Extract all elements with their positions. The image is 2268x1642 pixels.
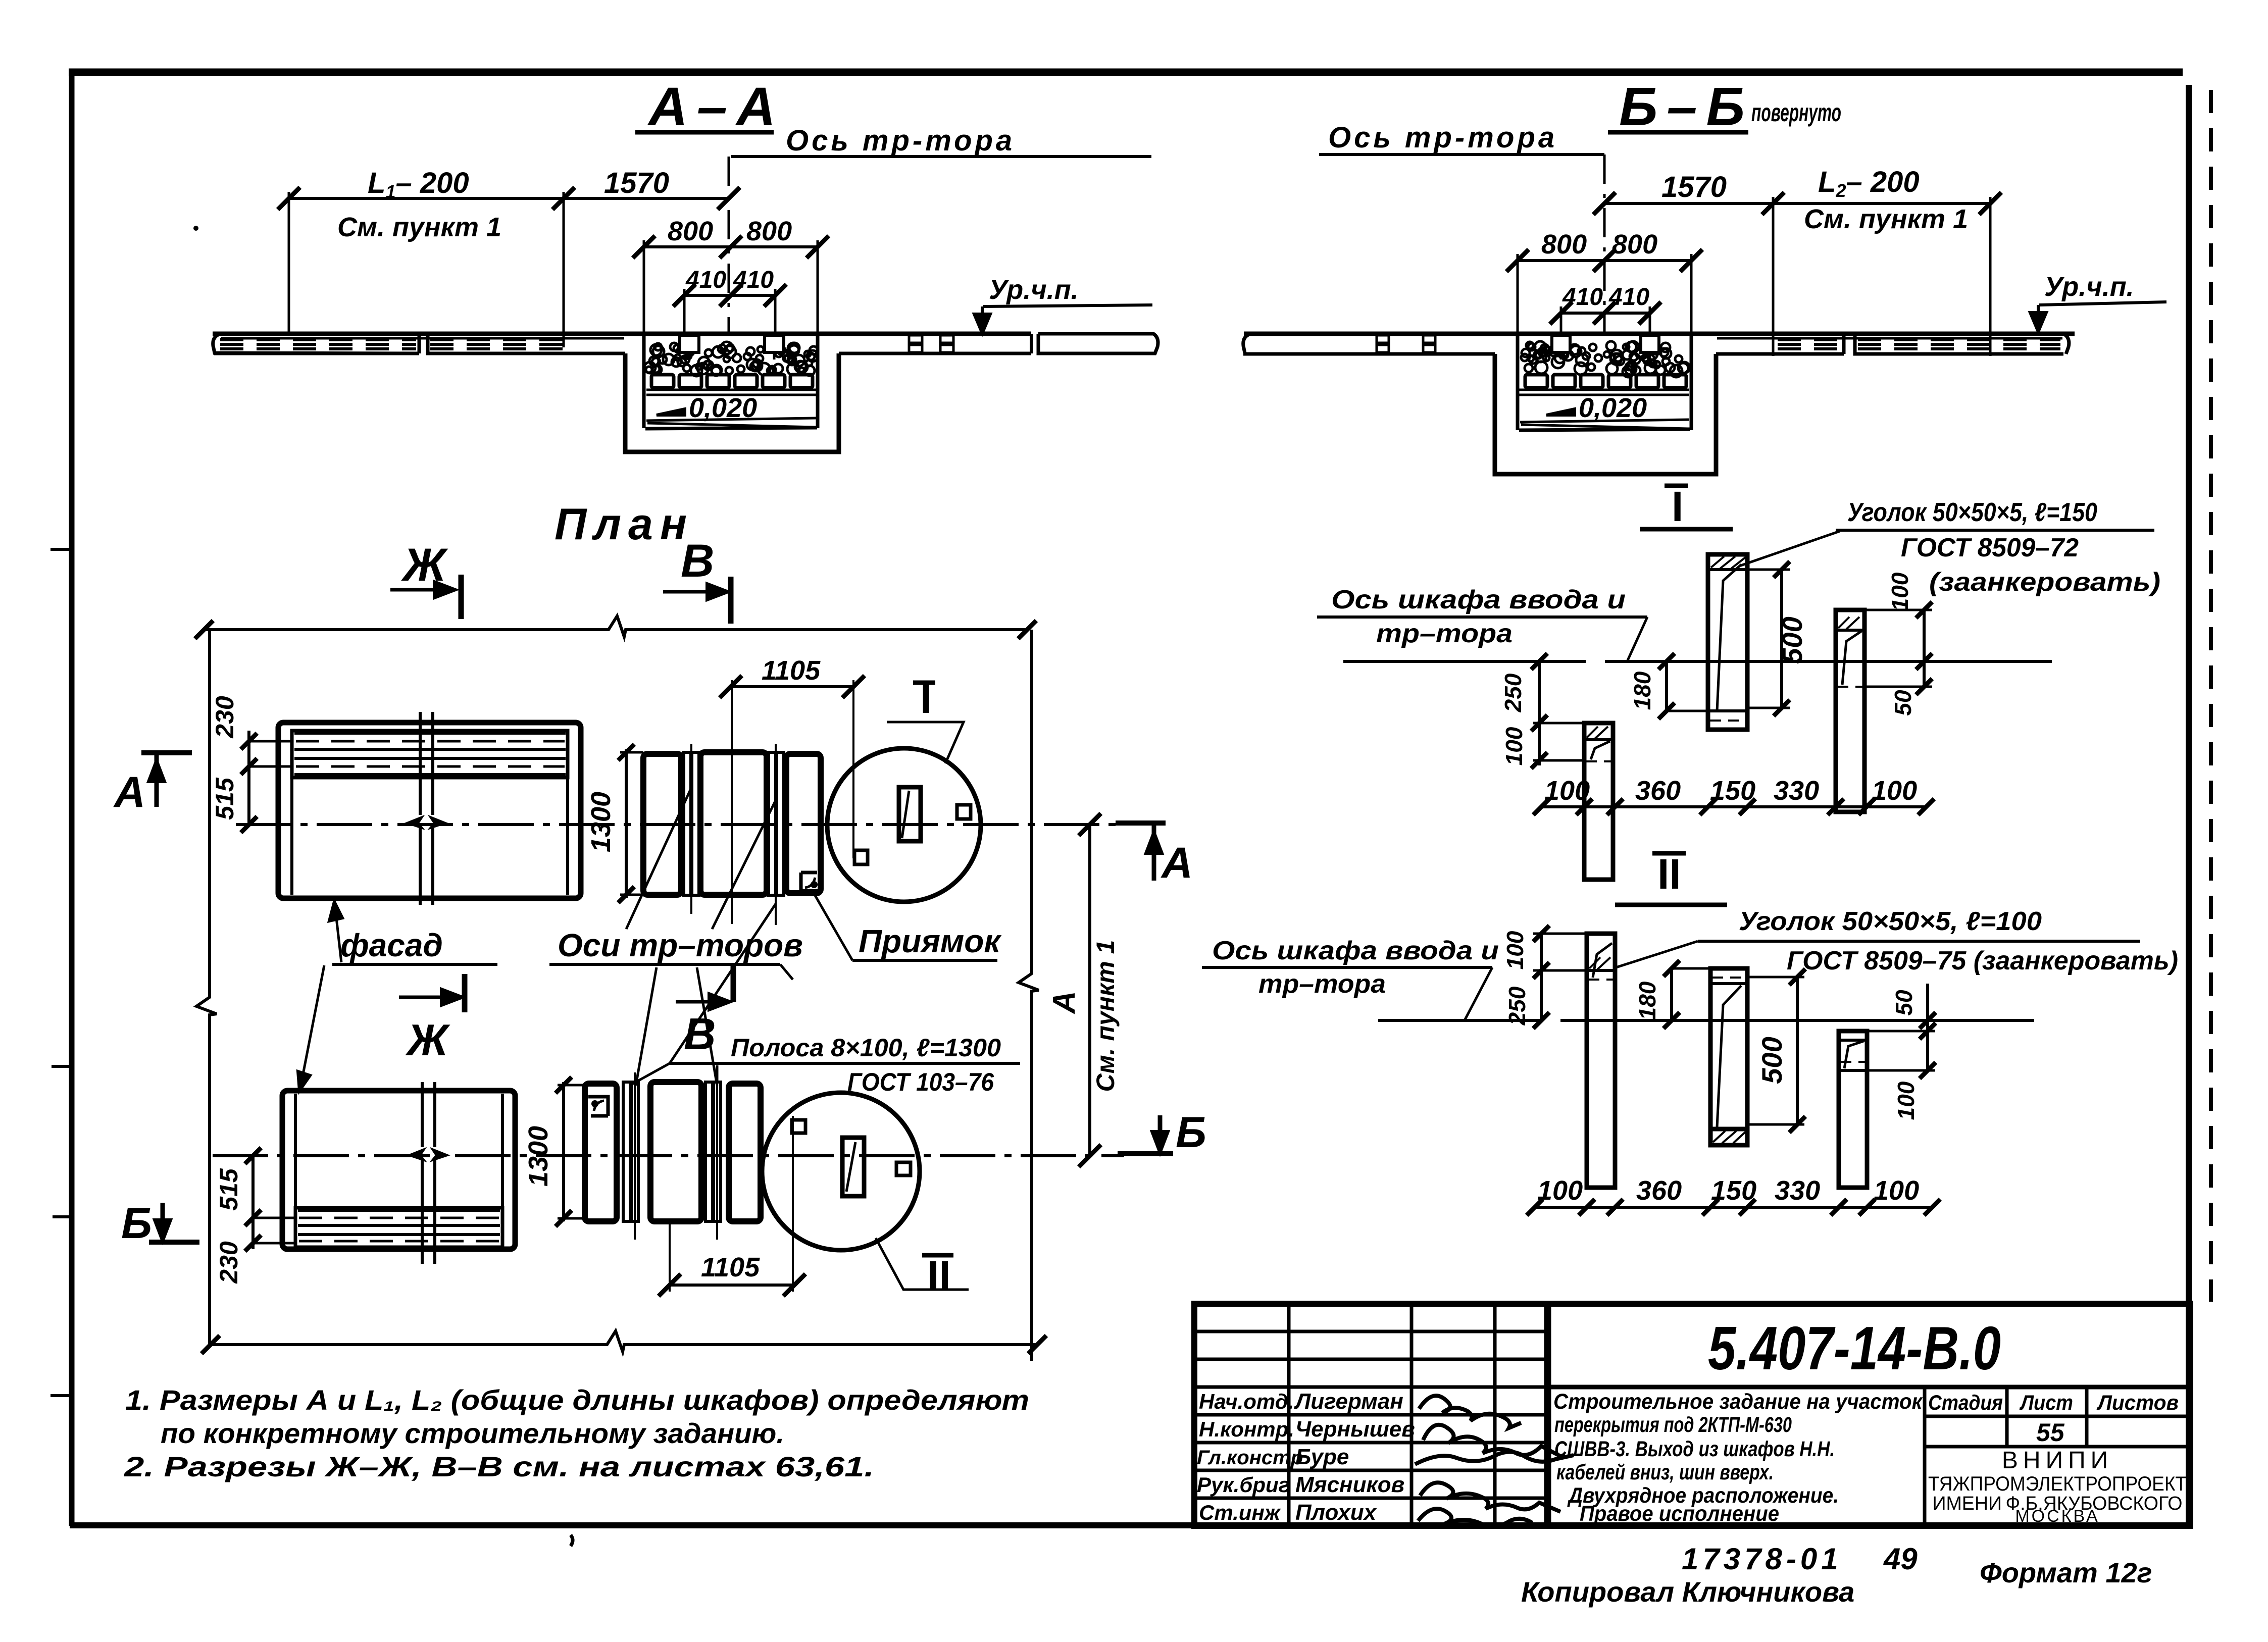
svg-text:100: 100 [1887,572,1913,611]
dimension 180 (detail I) [1665,661,1668,711]
floor surface line (Б-Б) [1244,332,2075,336]
svg-text:1300: 1300 [586,792,616,852]
extension lines 410 (Б-Б) [1560,306,1563,349]
dimension line 1570 / L2-200 (Б-Б) [1604,202,1990,205]
svg-text:1300: 1300 [523,1126,553,1187]
extension ticks 1300 bottom row [558,1084,585,1087]
svg-text:360: 360 [1635,776,1681,806]
Ось шкафа leader slant (detail II) [1465,967,1492,1020]
dimension 500 (detail I) [1780,570,1783,708]
busbar rails bottom row [298,1209,500,1212]
svg-text:Б: Б [121,1199,152,1248]
transformer axis 1 top row [690,744,692,914]
dimension line L1-200 / 1570 (A-A) [289,197,729,200]
dimension 1105 top row [731,685,853,688]
drawing frame right border [2186,85,2192,1526]
angle post right (detail I) [1836,610,1864,812]
drawing frame top border [69,69,2183,76]
right hatched slab 1 (Б-Б) [1776,334,1844,354]
Оси тр-торов leader to top row axis 2 [712,800,776,929]
section mark Ж top: bar [459,575,464,619]
left hatched slab 2 (A-A) [428,334,566,353]
svg-text:перекрытия под 2КТП-М-630: перекрытия под 2КТП-М-630 [1554,1413,1792,1437]
detail II reference leader [876,1238,969,1290]
svg-text:410: 410 [1608,284,1649,311]
extension lines 515/230 bottom row [253,1217,295,1219]
double top edge of hatched slabs (A-A) [221,337,624,340]
right slab (A-A) [839,352,1031,355]
section A-A title underline [635,130,774,135]
slab break (A-A right) [1030,334,1033,353]
extension lines 230/515 top row [249,740,292,743]
svg-text:Мясников: Мясников [1295,1472,1404,1497]
dimension 50 right (detail I) [1923,661,1926,687]
svg-text:100: 100 [1502,931,1528,969]
svg-text:1570: 1570 [1661,171,1727,203]
svg-text:Лист: Лист [2019,1391,2073,1414]
svg-text:250: 250 [1504,986,1530,1025]
pit outer wall (A-A) [625,353,839,452]
extension lines 800 (Б-Б) [1517,254,1519,335]
slab joint marks (A-A) [909,335,922,343]
svg-text:тр–тора: тр–тора [1376,619,1513,648]
anchor post left (A-A) [680,335,699,352]
svg-text:ВНИПИ: ВНИПИ [2002,1447,2113,1474]
Ур.ч.п. leader (Б-Б) [2039,302,2166,305]
flat-bar strips pair 1 top row [684,752,691,895]
Ось шкафа leader slant (detail I) [1627,617,1647,661]
vertical dimension 230/515 top row [247,731,250,825]
dimension line 800+800 (Б-Б) [1518,259,1691,262]
extension lines 410 (A-A) [683,289,686,348]
transformer block 2 top row (plan) [700,752,767,895]
section mark А right: stem with up arrow [1152,825,1156,881]
svg-text:L2– 200: L2– 200 [1818,166,1920,201]
Ур.ч.п. arrow (A-A) [981,306,984,327]
svg-text:Листов: Листов [2096,1391,2179,1414]
svg-text:L1– 200: L1– 200 [368,167,469,202]
perforation dashed line right [2209,90,2213,1302]
svg-text:800: 800 [1612,229,1657,260]
cabinet busbar channel bottom row [295,1208,502,1247]
slab joint marks (Б-Б) [1377,335,1389,343]
title block row lines left part [1194,1330,1549,1333]
dimension 50 right (detail II) [1926,984,1929,1031]
plan boundary top dimension line with break [204,616,1027,637]
vertical dimension 515/230 bottom row [251,1156,255,1249]
svg-text:410: 410 [733,267,774,293]
dimension 1300 bottom row [562,1082,565,1221]
left hatched slab 1 (A-A) [213,334,419,353]
section mark В bottom: arrow line [676,1000,719,1004]
extension lines 1105 bottom row [669,1221,671,1292]
inner edge line right post (detail I) [1842,631,1861,685]
right end slab piece (A-A) [1038,334,1158,353]
svg-text:фасад: фасад [340,927,443,963]
Полоса leader long diagonal [670,904,776,1063]
svg-text:Полоса 8×100, ℓ=1300: Полоса 8×100, ℓ=1300 [731,1034,1001,1062]
title block description box divider [1548,1304,1551,1526]
anchor square right in circle I [957,805,971,819]
Ур.ч.п. arrow (Б-Б) [2037,305,2040,325]
dimension 1105 bottom row [670,1284,794,1287]
section mark В top: arrow line [663,590,716,594]
svg-text:(заанкеровать): (заанкеровать) [1929,568,2160,597]
Ур.ч.п. leader (A-A) [983,305,1152,306]
plan boundary bottom dimension line with break [211,1331,1037,1352]
svg-text:Правое исполнение: Правое исполнение [1580,1502,1779,1526]
Оси тр-торов leader to bottom row axes [636,964,793,1086]
svg-text:См. пункт 1: См. пункт 1 [1091,940,1120,1092]
dimension А (plan right) [1088,825,1091,1156]
inner edge line right post (detail II) [1844,1041,1863,1068]
angle post right (detail II) [1839,1031,1867,1188]
anchor square right in circle II [896,1162,911,1175]
leader Уголок to left post (detail II) [1616,941,1698,967]
svg-text:по конкретному строительному: по конкретному строительному заданию. [161,1417,784,1449]
svg-text:800: 800 [1541,229,1587,260]
svg-text:Строительное задание на участо: Строительное задание на участок [1553,1390,1923,1414]
cabinet split double line bottom row [422,1082,435,1264]
transformer block 1 top row (plan) [643,754,681,895]
svg-text:180: 180 [1629,671,1655,710]
svg-text:515: 515 [215,1168,243,1211]
flat-bar strips pair 1 bottom row [623,1082,630,1221]
title block vertical dividers left part [1287,1304,1291,1526]
svg-text:Уголок 50×50×5, ℓ=150: Уголок 50×50×5, ℓ=150 [1847,498,2097,527]
svg-text:тр–тора: тр–тора [1258,969,1386,999]
svg-text:100: 100 [1872,776,1917,806]
anchor square lower-left in circle I [854,850,868,864]
transformer block 2 bottom row (plan) [650,1082,701,1221]
extension line at 1570 (A-A) [563,192,565,347]
flat-bar strips pair 2 top row [769,752,776,895]
transformer axis 1 bottom row [634,1072,636,1240]
busbar dashed centerlines top row [296,740,565,743]
inner edge line left post (detail II) [1593,943,1612,978]
dimension 250 left (detail II) [1533,1012,1549,1029]
transformer axis centerline (Б-Б) [1603,155,1606,335]
angle post left (detail I) [1584,723,1613,880]
pit inner walls (A-A) [642,334,646,428]
angle post left (detail II) [1587,934,1615,1188]
flat-bar strips pair 2 bottom row [705,1082,713,1221]
svg-text:230: 230 [215,1241,243,1284]
section mark Ж bottom: bar [462,974,468,1012]
cabinet inner end walls top row [290,778,293,895]
transformer axis 2 bottom row [716,1072,718,1240]
svg-text:100: 100 [1537,1175,1583,1206]
cabinet inner end walls bottom row [294,1094,297,1208]
pit corner symbol top row [801,873,821,891]
pit inner walls (Б-Б) [1516,334,1520,430]
svg-text:360: 360 [1636,1175,1682,1206]
svg-text:Ось шкафа ввода и: Ось шкафа ввода и [1212,936,1499,965]
cabinet split break arrows top row [407,817,445,828]
dimension 180 (detail II) [1670,968,1673,1020]
right hatched slab 2 (Б-Б) [1855,334,2069,354]
plan boundary left line with break [196,630,217,1345]
extension ticks 1300 top row [620,751,643,754]
anchor square top-left in circle II [792,1120,805,1133]
svg-text:180: 180 [1634,981,1660,1020]
anchor post right (A-A) [765,335,784,352]
svg-text:ГОСТ 8509–72: ГОСТ 8509–72 [1901,533,2079,562]
svg-text:Рук.бриг: Рук.бриг [1197,1473,1290,1497]
title block stadia columns [1923,1387,1927,1526]
svg-text:50: 50 [1890,690,1916,716]
section mark А left: stem with up arrow [155,753,159,807]
svg-text:800: 800 [746,216,792,246]
dimension 100 right (detail II) [1926,1031,1929,1070]
svg-text:См. пункт 1: См. пункт 1 [1804,204,1968,234]
axis line (detail II) [1378,1019,2034,1022]
anchor post left (Б-Б) [1552,335,1570,352]
svg-text:100: 100 [1893,1081,1919,1120]
detail I reference leader [887,722,964,763]
svg-text:Буре: Буре [1295,1445,1349,1469]
section mark А left: cap line [141,750,192,755]
dimension 1300 top row [625,749,628,898]
svg-text:Чернышев: Чернышев [1295,1417,1415,1442]
cabinet split break arrows bottom row [409,1149,447,1160]
section mark А right: cap line [1116,820,1166,826]
svg-text:СШВВ-3. Выход из шкафов Н.Н.: СШВВ-3. Выход из шкафов Н.Н. [1554,1437,1835,1461]
leader Уголок to middle post (detail I) [1741,531,1840,566]
svg-text:Формат 12г: Формат 12г [1980,1557,2152,1588]
axis line (detail I) [1343,660,2052,663]
double top edge of hatched slabs (Б-Б) [1717,337,2062,340]
dimension 500 (detail II) [1796,977,1799,1124]
Приямок leader to pit corner [814,894,852,960]
svg-text:Уголок 50×50×5, ℓ=100: Уголок 50×50×5, ℓ=100 [1739,907,2042,936]
detail I heading underline [1640,527,1733,532]
svg-text:2. Разрезы Ж–Ж, В–В см. на: 2. Разрезы Ж–Ж, В–В см. на листах 63,61. [124,1451,874,1482]
svg-text:50: 50 [1891,990,1917,1016]
svg-text:100: 100 [1501,727,1527,765]
slope mark 0,020 (Б-Б) [1546,409,1575,415]
svg-text:0,020: 0,020 [1579,393,1647,423]
Полоса leaders to bottom row strips [631,1063,717,1085]
svg-text:500: 500 [1756,1037,1788,1084]
cabinet busbar channel top row [292,731,568,778]
svg-text:ТЯЖПРОМЭЛЕКТРОПРОЕКТ: ТЯЖПРОМЭЛЕКТРОПРОЕКТ [1928,1473,2187,1495]
svg-text:230: 230 [211,696,239,739]
svg-text:Ур.ч.п.: Ур.ч.п. [2044,272,2134,302]
bottom dimension chain (detail I) [1541,805,1926,808]
extension lines 800 (A-A) [643,240,645,334]
svg-text:МОСКВА: МОСКВА [2015,1507,2099,1526]
svg-text:5.407-14-В.0: 5.407-14-В.0 [1708,1314,2001,1382]
svg-text:17378-01: 17378-01 [1682,1542,1842,1576]
dimension 250 left (detail I) [1538,661,1541,765]
svg-text:1105: 1105 [701,1252,760,1282]
extension line at 1570 (Б-Б) [1772,197,1775,356]
extension line left end (A-A) [288,192,290,336]
svg-text:100: 100 [1874,1175,1919,1206]
right slab plain part (Б-Б) [1716,352,1776,356]
svg-text:500: 500 [1776,617,1808,663]
section mark Б right: cap line [1118,1151,1173,1156]
busbar dashed centerlines bottom row [299,1217,499,1219]
extension line right end (Б-Б) [1989,197,1992,356]
section mark В top: bar [728,577,734,624]
svg-text:II: II [1657,850,1681,898]
pit bottom screed lines (A-A) [646,418,816,421]
фасад leader down to bottom cabinet [301,965,324,1085]
transformer block 1 bottom row with pit corner (plan) [585,1084,617,1221]
transformer block 3 bottom row (plan) [729,1084,761,1221]
svg-text:1. Размеры А и L₁, L₂ (общие: 1. Размеры А и L₁, L₂ (общие длины шкафо… [125,1384,1029,1416]
svg-text:150: 150 [1710,776,1755,806]
dimension line 800+800 (A-A) [644,245,818,248]
svg-text:1105: 1105 [762,655,821,686]
svg-text:кабелей вниз, шин вверх.: кабелей вниз, шин вверх. [1556,1460,1774,1484]
section mark Ж bottom: arrow line [399,996,451,999]
drawing frame left border [69,70,75,1526]
svg-text:Ст.инж: Ст.инж [1199,1501,1281,1524]
svg-text:55: 55 [2036,1418,2065,1447]
svg-text:Оси тр–торов: Оси тр–торов [558,927,803,963]
svg-text:Нач.отд.: Нач.отд. [1199,1390,1294,1413]
svg-text:Ж: Ж [405,1015,450,1065]
detail II heading underline [1615,903,1727,907]
svg-text:330: 330 [1774,776,1819,806]
svg-text:Б: Б [1176,1108,1206,1157]
gravel fill in pit (Б-Б) [1521,341,1690,377]
svg-text:1570: 1570 [604,167,669,199]
svg-text:А–А: А–А [647,76,785,137]
svg-text:повернуто: повернуто [1751,98,1841,127]
dimension 100 left (detail II) [1540,934,1543,1020]
anchor post right (Б-Б) [1641,335,1659,352]
signatures column scribbles [1419,1396,1521,1428]
transformer axis centerline (A-A) [728,157,730,334]
bottom dimension chain (detail II) [1535,1206,1932,1209]
svg-text:II: II [927,1252,951,1300]
slope mark 0,020 (A-A) [657,409,685,415]
busbar stub inside circle II [842,1138,864,1196]
svg-text:А: А [1047,991,1082,1015]
section Б-Б title underline [1608,130,1748,135]
Оси тр-торов leader to top row axis 1 [626,788,691,929]
section mark Б left: stem with down arrow [161,1203,165,1240]
transformer axis 2 top row [775,744,777,925]
gravel fill in pit (A-A) [644,342,818,376]
dimension 100 right (detail I) [1923,610,1926,661]
svg-text:Гл.констр: Гл.констр [1197,1447,1303,1469]
svg-text:Ур.ч.п.: Ур.ч.п. [989,275,1079,305]
svg-text:Ось тр-тора: Ось тр-тора [786,124,1015,157]
floor surface line (A-A) [213,332,1031,336]
dimension line 410+410 (Б-Б) [1561,312,1650,315]
dimension line 410+410 (A-A) [684,294,775,297]
svg-text:А: А [1161,839,1193,887]
section mark В bottom: bar [731,963,736,1002]
plan axis centerline top row [236,823,1124,826]
inner edge line left post (detail I) [1591,741,1610,759]
cabinet split double line top row [420,712,433,905]
pit outer wall (Б-Б) [1495,354,1716,474]
fold tick marks on left margin [51,549,71,1396]
svg-text:250: 250 [1500,673,1526,712]
фасад leader up to top cabinet [335,909,341,962]
svg-text:100: 100 [1544,776,1590,806]
svg-text:Ось тр-тора: Ось тр-тора [1328,121,1557,154]
svg-text:А: А [113,768,145,816]
angle post middle (detail I) [1708,554,1747,730]
cabinet outline top row (plan) [278,723,581,898]
angle post middle (detail II) [1710,968,1747,1129]
detail circle I [827,748,981,902]
title block stadia header underline [1925,1415,2190,1418]
plan boundary right line with break [1019,630,1039,1361]
section mark Б right: stem with down arrow [1158,1115,1163,1153]
svg-text:См. пункт 1: См. пункт 1 [337,212,501,242]
busbar rails top row [294,732,566,735]
svg-text:Ось шкафа ввода и: Ось шкафа ввода и [1331,585,1626,614]
brick row in pit (Б-Б) [1525,375,1686,388]
svg-text:Б–Б: Б–Б [1619,76,1754,137]
svg-text:515: 515 [211,777,239,820]
svg-text:План: План [555,499,694,549]
svg-text:Приямок: Приямок [859,923,1002,959]
svg-text:Копировал Ключникова: Копировал Ключникова [1521,1576,1854,1608]
cabinet outline bottom row (plan) [282,1091,515,1249]
svg-text:I: I [1672,483,1683,530]
svg-text:Стадия: Стадия [1928,1391,2003,1414]
section mark Ж top: arrow line [390,588,443,592]
svg-text:ГОСТ 8509–75 (заанкеровать): ГОСТ 8509–75 (заанкеровать) [1787,946,2178,976]
svg-text:800: 800 [668,216,713,246]
title block 5.407 box bottom line [1549,1385,2190,1390]
transformer block 3 top row with pit corner (plan) [786,754,821,893]
inner edge line middle post (detail I) [1717,565,1741,711]
left slab (Б-Б) [1243,335,1248,353]
pit corner symbol bottom row [588,1097,608,1116]
screed lines (Б-Б) [1519,389,1689,391]
slab to pit left (A-A) [566,352,625,355]
screed lines (A-A) [646,389,816,391]
pit bottom screed lines (Б-Б) [1520,420,1689,422]
brick row in pit (A-A) [651,375,813,388]
svg-text:49: 49 [1883,1542,1918,1576]
drawing frame bottom border [70,1522,2192,1528]
svg-text:Лигерман: Лигерман [1294,1389,1403,1414]
svg-text:ГОСТ 103–76: ГОСТ 103–76 [847,1068,994,1096]
svg-text:Н.контр.: Н.контр. [1199,1417,1294,1441]
title block outer box [1194,1304,2190,1526]
svg-text:В: В [681,535,714,587]
axis leader line (A-A) [731,155,1151,158]
busbar stub inside circle I [899,787,921,841]
plan axis centerline bottom row [213,1154,1124,1157]
stray mark below notes [571,1535,573,1546]
svg-text:150: 150 [1711,1175,1756,1206]
svg-text:410: 410 [685,267,726,293]
title block stadia value row line [1925,1445,2190,1449]
inner edge line middle post (detail II) [1717,986,1741,1127]
svg-text:410: 410 [1562,284,1603,311]
svg-text:0,020: 0,020 [689,393,757,423]
axis leader line (Б-Б) [1319,153,1604,156]
extension lines 1105 top row [731,680,733,924]
svg-text:Плохих: Плохих [1295,1500,1377,1525]
section mark Б left: cap line [149,1240,199,1245]
svg-text:330: 330 [1775,1175,1820,1206]
dimension 100 left (detail I) [1531,752,1547,768]
detail circle II [762,1093,920,1250]
